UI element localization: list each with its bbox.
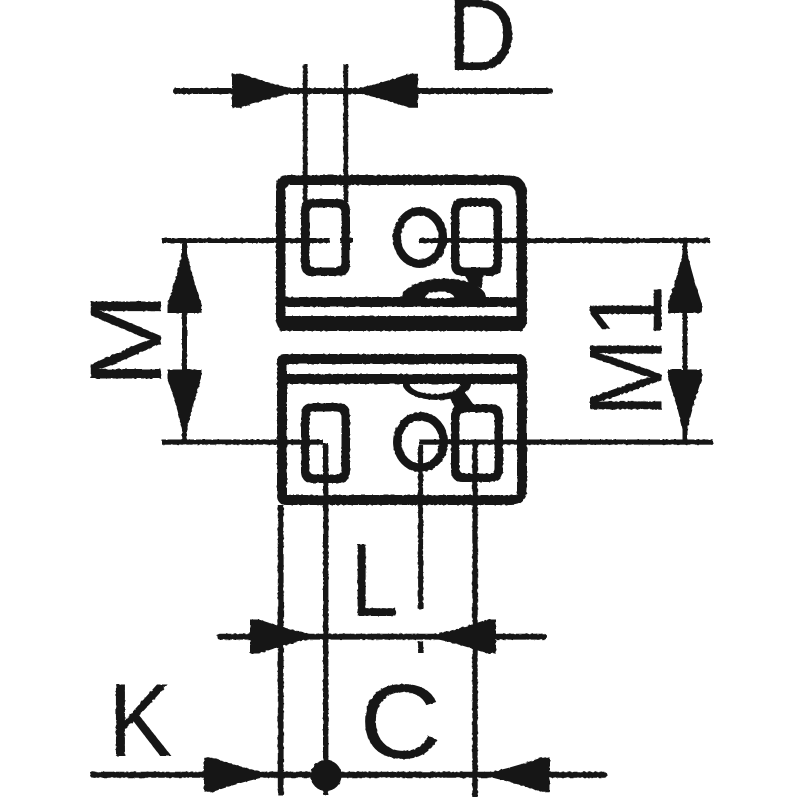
M dimension line xyxy=(182,242,187,440)
top plate inner bottom line xyxy=(285,297,517,307)
junction dot xyxy=(311,760,342,791)
L dimension line xyxy=(217,634,547,640)
top left slot ring xyxy=(301,199,350,276)
bottom dome xyxy=(403,384,471,400)
svg-text:L: L xyxy=(351,522,399,638)
D arrow left xyxy=(232,74,304,108)
top plate interior xyxy=(286,185,517,321)
top dome bridge to right slot xyxy=(464,274,484,288)
M top extension line stub xyxy=(340,238,353,243)
K extension line (plate left edge extended) xyxy=(278,505,284,795)
svg-text:K: K xyxy=(108,663,173,779)
center line right slot xyxy=(472,443,477,797)
M1 arrow up xyxy=(668,241,702,313)
C arrow xyxy=(478,758,550,792)
svg-text:D: D xyxy=(447,0,517,93)
D extension line left xyxy=(303,64,308,204)
M bottom extension line xyxy=(162,440,323,445)
bottom plate interior xyxy=(287,364,517,495)
top plate body xyxy=(276,175,527,331)
D arrow right xyxy=(346,74,418,108)
center line middle hole upper xyxy=(418,445,423,609)
center line left slot xyxy=(323,443,328,795)
svg-text:C: C xyxy=(359,663,441,781)
center line middle hole stub below L xyxy=(418,641,423,653)
M arrow up xyxy=(168,241,202,313)
top plate bottom band xyxy=(280,316,523,331)
bottom dimension line xyxy=(90,772,607,778)
K arrow xyxy=(204,758,276,792)
bottom middle hole ring xyxy=(393,412,448,472)
D dimension line xyxy=(173,88,553,94)
svg-text:M1: M1 xyxy=(569,285,685,417)
M/M1 top extension line right part xyxy=(419,238,710,243)
bottom right slot ring xyxy=(451,404,503,482)
bottom plate body xyxy=(277,354,527,505)
top right slot ring xyxy=(451,198,502,276)
svg-text:M: M xyxy=(69,292,183,388)
D extension line right xyxy=(343,64,348,202)
top dome inner white xyxy=(425,292,454,298)
M1 arrow down xyxy=(668,370,702,442)
bottom plate inner top line xyxy=(287,374,517,384)
L arrow left xyxy=(250,620,322,654)
bottom left slot ring xyxy=(301,403,350,483)
M/M1 bottom extension line right part xyxy=(419,440,713,445)
M arrow down xyxy=(168,370,202,442)
M top extension line xyxy=(162,238,330,243)
M1 dimension line xyxy=(683,242,688,440)
bottom dome bridge to right slot xyxy=(450,390,474,408)
L arrow right xyxy=(424,620,496,654)
top dome xyxy=(402,279,486,299)
top middle hole ring xyxy=(393,207,447,268)
bottom dome inner white xyxy=(410,384,460,394)
